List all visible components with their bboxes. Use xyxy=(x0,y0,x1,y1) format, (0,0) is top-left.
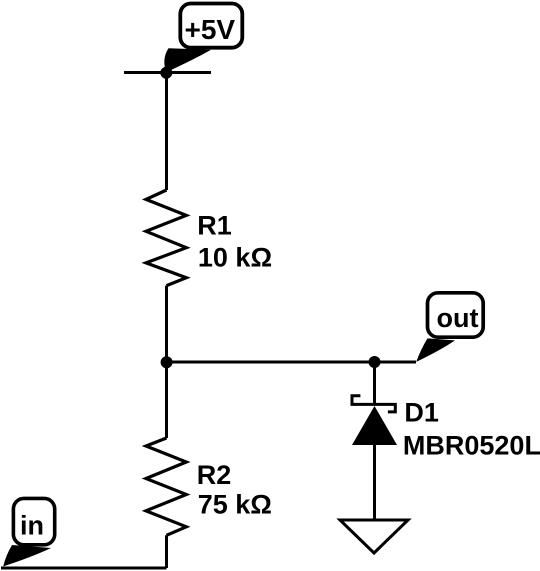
wire R1 to node xyxy=(165,286,168,362)
svg-text:R1: R1 xyxy=(197,211,232,241)
node dot right (diode tap) xyxy=(369,356,381,368)
svg-text:in: in xyxy=(20,511,44,541)
svg-text:75 kΩ: 75 kΩ xyxy=(198,490,272,520)
svg-text:+5V: +5V xyxy=(184,14,235,45)
svg-text:D1: D1 xyxy=(404,398,439,428)
junction dot at +5V rail xyxy=(160,67,172,79)
wire rail to R1 xyxy=(165,73,168,191)
node dot left (divider node) xyxy=(161,356,173,368)
svg-text:10 kΩ: 10 kΩ xyxy=(198,242,272,272)
wire in (bottom) xyxy=(1,567,167,570)
wire diode to ground xyxy=(373,445,376,520)
+5V rail xyxy=(124,71,211,74)
ground xyxy=(340,520,408,553)
svg-text:MBR0520L: MBR0520L xyxy=(403,431,540,461)
svg-text:out: out xyxy=(437,303,479,333)
diode D1 anode triangle xyxy=(352,406,397,445)
wire bottom to R2 xyxy=(165,535,168,568)
svg-text:R2: R2 xyxy=(197,460,232,490)
net flag in xyxy=(3,498,54,566)
wire node to out xyxy=(167,361,417,364)
resistor R1 xyxy=(146,190,186,286)
wire node to R2 xyxy=(165,362,168,438)
wire node to diode xyxy=(373,362,376,405)
net flag +5V xyxy=(164,4,242,73)
net flag out xyxy=(416,293,483,362)
resistor R2 xyxy=(146,438,186,535)
diode D1 cathode (schottky bar) xyxy=(352,396,395,412)
